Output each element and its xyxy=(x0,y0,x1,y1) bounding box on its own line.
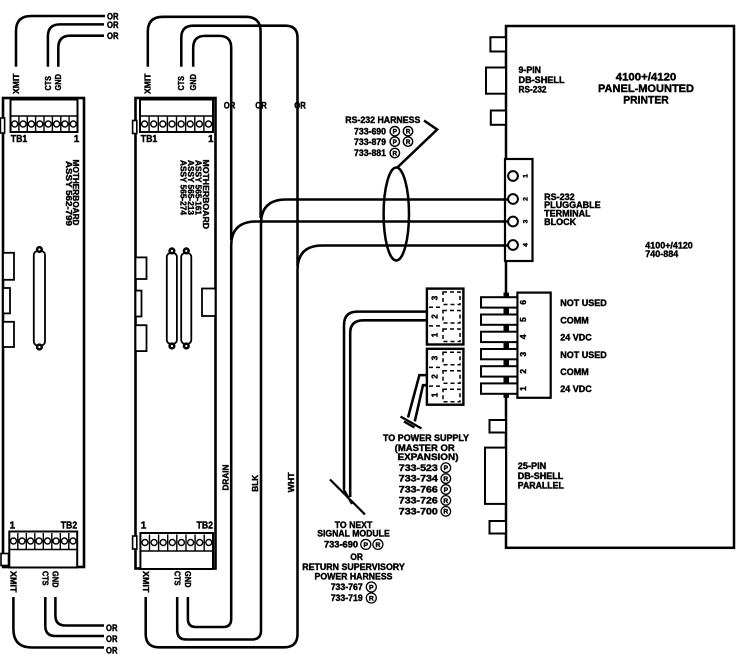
svg-text:733-766: 733-766 xyxy=(399,485,438,495)
svg-text:2: 2 xyxy=(523,197,530,201)
svg-text:P: P xyxy=(364,542,369,549)
svg-text:GND: GND xyxy=(188,74,198,91)
svg-text:TB2: TB2 xyxy=(197,521,214,532)
svg-text:733-767: 733-767 xyxy=(331,582,363,592)
svg-text:COMM: COMM xyxy=(560,367,589,377)
svg-text:4100+/4120: 4100+/4120 xyxy=(616,71,677,83)
svg-text:P: P xyxy=(393,129,398,136)
svg-text:CTS: CTS xyxy=(172,571,182,586)
svg-text:XMIT: XMIT xyxy=(141,571,151,593)
svg-text:PARALLEL: PARALLEL xyxy=(518,481,564,491)
svg-text:DRAIN: DRAIN xyxy=(220,465,230,491)
svg-text:1: 1 xyxy=(431,392,440,397)
svg-text:WHT: WHT xyxy=(286,472,296,493)
svg-text:24 VDC: 24 VDC xyxy=(560,333,592,343)
svg-text:P: P xyxy=(393,139,398,146)
svg-text:P: P xyxy=(444,487,449,494)
svg-text:733-726: 733-726 xyxy=(399,496,438,506)
svg-text:OR: OR xyxy=(224,101,236,111)
svg-text:1: 1 xyxy=(141,521,147,532)
svg-text:3: 3 xyxy=(431,295,440,300)
svg-text:OR: OR xyxy=(350,552,363,562)
svg-text:R: R xyxy=(406,139,411,146)
svg-text:XMIT: XMIT xyxy=(11,73,21,94)
svg-text:24 VDC: 24 VDC xyxy=(560,384,592,394)
svg-text:GND: GND xyxy=(183,571,193,588)
svg-text:2: 2 xyxy=(518,369,528,374)
svg-text:P: P xyxy=(369,585,374,592)
svg-text:1: 1 xyxy=(518,386,528,391)
svg-text:25-PIN: 25-PIN xyxy=(518,461,547,471)
svg-text:4: 4 xyxy=(523,243,530,247)
svg-text:ASSY 562-799: ASSY 562-799 xyxy=(64,161,74,226)
svg-text:RETURN SUPERVISORY: RETURN SUPERVISORY xyxy=(302,562,405,572)
svg-text:3: 3 xyxy=(518,352,528,357)
svg-text:COMM: COMM xyxy=(560,315,589,325)
svg-text:OR: OR xyxy=(107,31,119,41)
svg-text:733-881: 733-881 xyxy=(354,148,386,158)
svg-text:CTS: CTS xyxy=(176,76,186,91)
svg-text:740-884: 740-884 xyxy=(645,249,678,259)
svg-text:XMIT: XMIT xyxy=(143,73,153,94)
svg-text:R: R xyxy=(375,542,380,549)
svg-text:R: R xyxy=(392,150,397,157)
svg-text:2: 2 xyxy=(431,374,440,379)
svg-text:733-690: 733-690 xyxy=(354,126,386,136)
svg-text:R: R xyxy=(369,596,374,603)
svg-text:OR: OR xyxy=(106,646,118,656)
svg-text:POWER HARNESS: POWER HARNESS xyxy=(315,572,393,582)
svg-text:9-PIN: 9-PIN xyxy=(519,65,542,75)
svg-text:BLOCK: BLOCK xyxy=(544,217,576,227)
svg-text:5: 5 xyxy=(518,317,528,322)
svg-text:RS-232 HARNESS: RS-232 HARNESS xyxy=(345,115,420,125)
svg-text:3: 3 xyxy=(431,355,440,360)
svg-text:TB2: TB2 xyxy=(61,521,78,532)
svg-text:PRINTER: PRINTER xyxy=(623,95,669,107)
svg-text:BLK: BLK xyxy=(250,474,260,492)
svg-text:R: R xyxy=(443,498,448,505)
svg-text:SIGNAL MODULE: SIGNAL MODULE xyxy=(317,528,390,538)
svg-text:3: 3 xyxy=(523,219,530,223)
svg-text:ASSY 565-274: ASSY 565-274 xyxy=(178,160,187,215)
svg-text:733-879: 733-879 xyxy=(354,137,386,147)
svg-text:PANEL-MOUNTED: PANEL-MOUNTED xyxy=(598,83,694,95)
svg-text:GND: GND xyxy=(53,74,63,91)
svg-text:R: R xyxy=(406,129,411,136)
svg-text:R: R xyxy=(443,476,448,483)
svg-text:NOT USED: NOT USED xyxy=(560,350,607,360)
svg-text:DB-SHELL: DB-SHELL xyxy=(519,75,566,85)
svg-text:1: 1 xyxy=(10,521,16,532)
svg-text:4: 4 xyxy=(518,334,528,339)
svg-text:RS-232: RS-232 xyxy=(519,85,547,95)
svg-text:CTS: CTS xyxy=(40,571,50,586)
svg-text:1: 1 xyxy=(431,332,440,337)
svg-text:OR: OR xyxy=(294,101,306,111)
svg-text:TB1: TB1 xyxy=(141,134,158,145)
svg-text:TO POWER SUPPLY: TO POWER SUPPLY xyxy=(383,433,469,443)
svg-text:6: 6 xyxy=(518,300,528,305)
svg-text:733-523: 733-523 xyxy=(399,463,438,473)
svg-text:P: P xyxy=(444,465,449,472)
svg-text:DB-SHELL: DB-SHELL xyxy=(518,471,564,481)
svg-text:733-734: 733-734 xyxy=(399,474,439,484)
svg-text:OR: OR xyxy=(255,101,267,111)
svg-text:2: 2 xyxy=(431,314,440,319)
svg-text:TB1: TB1 xyxy=(11,134,28,145)
svg-text:1: 1 xyxy=(208,134,214,145)
svg-text:733-690: 733-690 xyxy=(324,540,358,550)
svg-text:1: 1 xyxy=(523,174,530,178)
svg-text:NOT USED: NOT USED xyxy=(560,298,607,308)
svg-text:R: R xyxy=(443,509,448,516)
svg-text:1: 1 xyxy=(74,134,80,145)
svg-text:CTS: CTS xyxy=(43,76,53,91)
svg-text:733-719: 733-719 xyxy=(331,593,363,603)
svg-text:OR: OR xyxy=(106,623,118,633)
svg-text:OR: OR xyxy=(107,20,119,30)
svg-text:XMIT: XMIT xyxy=(9,571,19,593)
svg-text:GND: GND xyxy=(51,571,61,588)
svg-text:EXPANSION): EXPANSION) xyxy=(398,452,459,462)
svg-text:OR: OR xyxy=(106,634,118,644)
svg-text:733-700: 733-700 xyxy=(399,506,438,516)
